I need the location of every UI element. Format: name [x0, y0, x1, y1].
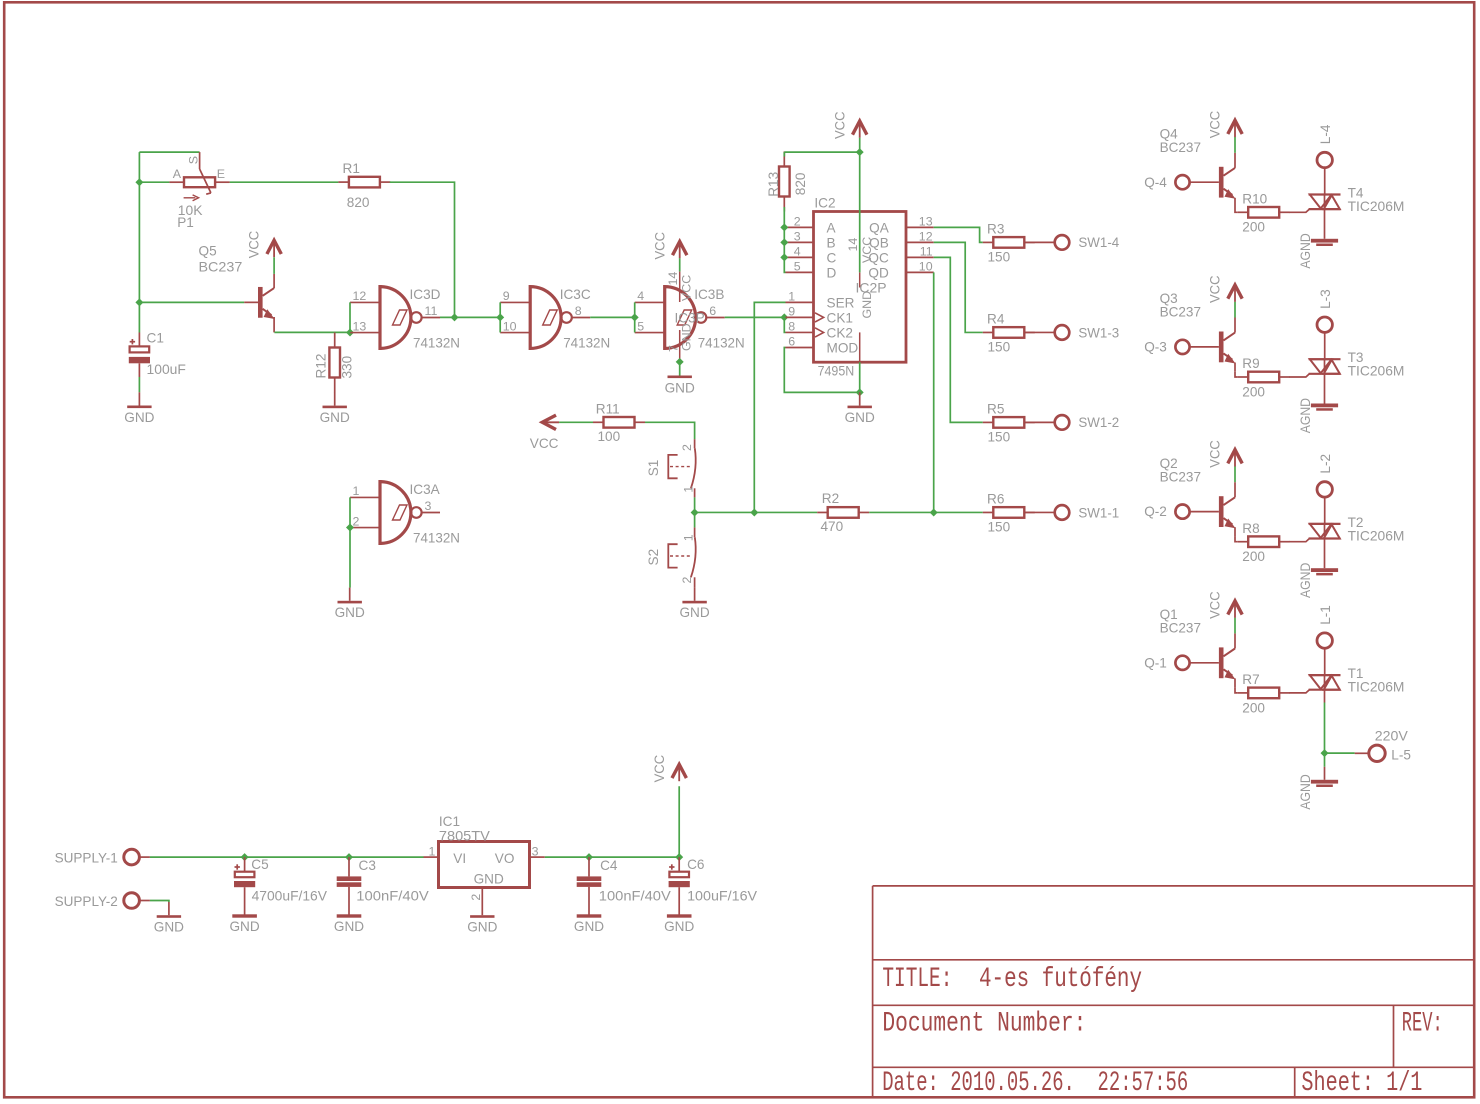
svg-text:IC3D: IC3D	[410, 287, 441, 302]
svg-text:150: 150	[988, 340, 1011, 355]
pad SW1-1	[1025, 505, 1120, 520]
svg-text:BC237: BC237	[1160, 305, 1201, 320]
junction IC3C input tie	[496, 313, 504, 321]
pad Q-2	[1144, 504, 1189, 519]
transistor Q5 BC237	[199, 244, 275, 333]
svg-text:IC2: IC2	[814, 196, 835, 211]
resistor R8 200	[1238, 521, 1290, 564]
wire L-1 to T1 MT2	[1324, 648, 1326, 675]
wire T1 MT1 to 220V node	[1324, 690, 1326, 703]
power VCC (Q5 collector)	[247, 231, 282, 259]
svg-text:BC237: BC237	[1160, 140, 1201, 155]
junction emitter/IC3D pin13	[346, 328, 354, 336]
power VCC (left arrow at R11)	[530, 415, 559, 451]
svg-text:SUPPLY-2: SUPPLY-2	[55, 894, 118, 909]
svg-text:GND: GND	[574, 919, 604, 934]
svg-text:5: 5	[637, 319, 644, 333]
svg-text:P1: P1	[177, 215, 194, 230]
svg-text:11: 11	[920, 245, 933, 259]
junction IC3B gnd	[676, 358, 684, 366]
wire R13 top to VCC node	[784, 151, 859, 153]
svg-text:3: 3	[532, 845, 539, 859]
wire Q5 collector to VCC	[273, 257, 275, 274]
switch S2	[646, 527, 696, 587]
svg-text:R3: R3	[987, 222, 1004, 237]
triac T1 TIC206M	[1309, 666, 1405, 695]
svg-text:TITLE:: TITLE:	[882, 964, 952, 995]
capacitor C1 100uF	[129, 331, 186, 378]
wire Q3 emitter to R9	[1235, 372, 1238, 377]
pad L-3	[1317, 289, 1333, 332]
resistor R3 150	[983, 222, 1035, 265]
wire IC3C out to IC3B inputs	[590, 316, 635, 318]
NAND gate IC3C (74132N)	[500, 287, 610, 351]
svg-text:R6: R6	[987, 492, 1004, 507]
svg-text:100uF/16V: 100uF/16V	[687, 888, 757, 903]
svg-text:Document Number:: Document Number:	[882, 1009, 1086, 1040]
junction C4	[585, 853, 593, 861]
wire rail to pot A	[139, 181, 169, 183]
resistor R2 470	[817, 491, 869, 534]
svg-text:2: 2	[680, 444, 694, 451]
svg-text:TIC206M: TIC206M	[1348, 364, 1405, 379]
ground GND (IC2)	[845, 392, 875, 425]
wire Q-2 to Q2 base	[1190, 511, 1219, 513]
wire IC3D out to IC3C inputs	[440, 316, 500, 318]
power VCC (Q2)	[1208, 440, 1243, 468]
svg-text:VCC: VCC	[652, 232, 667, 260]
wire R8 to T2 gate	[1289, 539, 1309, 542]
wire Q-1 to Q1 base	[1190, 662, 1219, 664]
svg-text:8: 8	[788, 320, 795, 334]
svg-text:74132N: 74132N	[563, 336, 610, 351]
junction pin A	[780, 223, 788, 231]
power VCC (IC3B pin 14) with pin lines	[652, 232, 693, 302]
resistor R7 200	[1238, 672, 1290, 715]
transistor Q2 BC237	[1160, 456, 1236, 537]
wire Q1 emitter to R7	[1235, 688, 1238, 693]
pad Q-1	[1144, 655, 1189, 670]
switch S1	[646, 439, 696, 497]
wire SER to switch node	[754, 302, 785, 512]
svg-text:GND: GND	[320, 410, 350, 425]
wire Q-3 to Q3 base	[1190, 346, 1219, 348]
svg-text:GND: GND	[124, 410, 154, 425]
svg-text:AGND: AGND	[1298, 774, 1313, 809]
ground GND (IC3B)	[665, 376, 695, 396]
junction QD/R2/R6	[930, 508, 938, 516]
svg-text:VCC: VCC	[1208, 111, 1223, 139]
svg-text:C1: C1	[147, 331, 164, 346]
ground GND (IC3A)	[335, 588, 365, 621]
wire QD to SW1-1 node	[933, 272, 935, 512]
wire R7 to T1 gate	[1289, 690, 1309, 693]
svg-text:IC3C: IC3C	[560, 287, 591, 302]
svg-text:SW1-4: SW1-4	[1078, 235, 1119, 250]
triac T3 TIC206M	[1309, 350, 1405, 379]
svg-text:GND: GND	[664, 919, 694, 934]
svg-text:R5: R5	[987, 402, 1004, 417]
junction rail/pot-A	[135, 178, 143, 186]
resistor R13 820	[766, 152, 808, 212]
svg-text:7495N: 7495N	[818, 364, 855, 379]
wire R9 to T3 gate	[1289, 374, 1309, 377]
wire L-3 to T3 MT2	[1324, 332, 1326, 359]
svg-text:GND: GND	[845, 410, 875, 425]
pad SW1-2	[1025, 415, 1120, 430]
wire IC3B inputs tie	[634, 302, 636, 332]
pad L-5 220V	[1369, 729, 1411, 763]
wire IC3B out to IC2 CK1/CK2	[725, 316, 786, 318]
svg-text:A: A	[827, 220, 837, 235]
svg-text:VCC: VCC	[832, 111, 847, 139]
svg-text:13: 13	[919, 215, 933, 229]
wire R11 to S1	[645, 422, 695, 439]
svg-text:220V: 220V	[1375, 729, 1408, 744]
triac T2 TIC206M	[1309, 515, 1405, 544]
svg-text:TIC206M: TIC206M	[1348, 680, 1405, 695]
ground GND (S2)	[679, 588, 709, 621]
pad L-1	[1317, 605, 1333, 648]
svg-text:L-4: L-4	[1318, 124, 1333, 144]
svg-text:Q-1: Q-1	[1144, 655, 1167, 670]
wire Q4 collector to VCC	[1234, 137, 1236, 153]
svg-text:TIC206M: TIC206M	[1348, 199, 1405, 214]
capacitor C3 100nF/40V	[334, 857, 429, 934]
svg-text:200: 200	[1242, 384, 1265, 399]
svg-text:GND: GND	[665, 381, 695, 396]
svg-text:R4: R4	[987, 312, 1005, 327]
wire L-4 to T4 MT2	[1324, 168, 1326, 195]
power VCC (Q3)	[1208, 275, 1243, 303]
wire VCC to IC2 pin14	[859, 138, 861, 273]
svg-text:R8: R8	[1242, 521, 1259, 536]
pad L-2	[1317, 454, 1333, 497]
svg-text:74132N: 74132N	[413, 336, 460, 351]
junction C6	[675, 853, 683, 861]
ground GND (R12)	[320, 392, 350, 425]
wire node to AGND	[1324, 753, 1326, 767]
svg-text:C4: C4	[600, 858, 618, 873]
svg-text:R1: R1	[343, 161, 360, 176]
resistor R10 200	[1238, 192, 1290, 235]
junction CK1 node	[780, 313, 788, 321]
wire L-2 to T2 MT2	[1324, 497, 1326, 524]
svg-text:AGND: AGND	[1298, 563, 1313, 598]
svg-text:9: 9	[788, 305, 795, 319]
svg-text:GND: GND	[860, 291, 874, 319]
svg-text:Q-3: Q-3	[1144, 340, 1167, 355]
svg-text:820: 820	[793, 172, 808, 195]
svg-text:9: 9	[503, 289, 510, 303]
svg-text:L-5: L-5	[1391, 748, 1411, 763]
svg-text:IC3B: IC3B	[694, 287, 724, 302]
svg-text:10: 10	[919, 260, 933, 274]
svg-text:A: A	[173, 167, 182, 181]
transistor Q3 BC237	[1160, 291, 1236, 372]
svg-text:2: 2	[469, 894, 483, 901]
svg-text:74132N: 74132N	[698, 336, 745, 351]
svg-text:12: 12	[353, 289, 367, 303]
NAND gate IC3B (74132N)	[635, 287, 745, 351]
wire VCC riser	[678, 786, 680, 857]
svg-text:GND: GND	[154, 920, 184, 935]
wire S1 to node	[694, 497, 696, 512]
wire R13 bottom to IC2 ABCD pins	[784, 207, 785, 272]
svg-text:L-3: L-3	[1318, 289, 1333, 309]
svg-text:CK1: CK1	[827, 311, 853, 326]
svg-text:IC3P: IC3P	[675, 311, 705, 326]
resistor R6 150	[983, 492, 1035, 535]
svg-text:Q-2: Q-2	[1144, 504, 1167, 519]
svg-text:REV:: REV:	[1402, 1009, 1443, 1040]
svg-text:6: 6	[709, 304, 716, 318]
wire T3 MT1 to AGND	[1324, 374, 1326, 404]
svg-text:C3: C3	[359, 858, 376, 873]
svg-text:SW1-2: SW1-2	[1078, 415, 1119, 430]
capacitor C5 4700uF/16V	[229, 857, 327, 934]
junction IC3A pin2	[346, 523, 354, 531]
potentiometer P1 10K	[169, 152, 229, 230]
svg-text:L-2: L-2	[1318, 454, 1333, 474]
NAND gate IC3D (74132N)	[350, 287, 460, 351]
svg-text:S: S	[186, 156, 200, 164]
wire node to S2	[694, 512, 696, 527]
svg-text:R7: R7	[1242, 672, 1259, 687]
wire rail to Q5 base	[139, 301, 244, 303]
ground AGND (T1)	[1298, 774, 1338, 809]
pad SW1-3	[1025, 325, 1120, 340]
resistor R9 200	[1238, 356, 1290, 399]
svg-text:13: 13	[353, 319, 367, 333]
svg-text:R2: R2	[822, 491, 839, 506]
wire QA to R3	[934, 227, 983, 242]
svg-text:3: 3	[425, 499, 432, 513]
svg-text:4: 4	[637, 289, 644, 303]
wire R2 to QD node	[869, 511, 934, 513]
svg-text:VI: VI	[453, 851, 466, 866]
ground AGND (T2)	[1298, 563, 1338, 598]
svg-text:1: 1	[353, 484, 360, 498]
svg-text:MOD: MOD	[827, 341, 859, 356]
svg-text:VO: VO	[495, 851, 515, 866]
svg-text:200: 200	[1242, 700, 1265, 715]
svg-text:1: 1	[682, 534, 696, 541]
svg-text:C6: C6	[687, 857, 704, 872]
svg-text:VCC: VCC	[1208, 275, 1223, 303]
wire Q2 emitter to R8	[1235, 536, 1238, 541]
ground AGND (T3)	[1298, 398, 1338, 433]
svg-text:SW1-1: SW1-1	[1078, 505, 1119, 520]
triac T4 TIC206M	[1309, 185, 1405, 214]
svg-text:4-es futófény: 4-es futófény	[979, 964, 1142, 995]
pad SUPPLY-2	[55, 893, 140, 909]
svg-text:VCC: VCC	[652, 755, 667, 783]
voltage regulator IC1 7805TV	[424, 814, 545, 902]
junction feedback/IC3D-out	[451, 313, 459, 321]
junction pin B	[780, 238, 788, 246]
wire Q-4 to Q4 base	[1190, 181, 1219, 183]
svg-text:1: 1	[682, 486, 696, 493]
capacitor C4 100nF/40V	[574, 857, 671, 934]
wire T2 MT1 to AGND	[1324, 539, 1326, 569]
wire Q5 emitter to R12/IC3D	[274, 331, 350, 333]
junction SER riser	[750, 508, 758, 516]
wire IC3A inputs tie to GND	[349, 497, 351, 587]
svg-text:150: 150	[988, 430, 1011, 445]
pad Q-4	[1144, 175, 1189, 190]
power VCC (supply output)	[652, 755, 687, 783]
wire supply rail	[139, 856, 150, 858]
svg-text:GND: GND	[467, 920, 497, 935]
svg-text:B: B	[827, 235, 836, 250]
svg-text:6: 6	[788, 335, 795, 349]
junction IC2 gnd	[856, 388, 864, 396]
pad L-4	[1317, 124, 1333, 168]
ground AGND (T4)	[1298, 233, 1338, 268]
title block frame	[873, 886, 1474, 1097]
wire IC3C inputs tie	[499, 302, 501, 332]
svg-text:S1: S1	[646, 460, 661, 477]
ground GND (IC1)	[481, 902, 483, 915]
svg-text:IC3A: IC3A	[410, 482, 441, 497]
transistor Q1 BC237	[1160, 607, 1236, 688]
svg-text:SER: SER	[827, 295, 855, 310]
svg-text:Sheet: 1/1: Sheet: 1/1	[1301, 1068, 1422, 1099]
wire Q3 collector to VCC	[1234, 302, 1236, 318]
wire node to R2	[695, 511, 818, 513]
junction pin C	[780, 253, 788, 261]
svg-text:11: 11	[425, 304, 438, 318]
svg-text:820: 820	[347, 195, 370, 210]
svg-text:2: 2	[794, 215, 801, 229]
resistor R12 330	[313, 333, 354, 393]
resistor R4 150	[983, 312, 1035, 355]
ground GND (SUPPLY-2)	[168, 902, 170, 915]
svg-text:10: 10	[503, 319, 517, 333]
svg-text:200: 200	[1242, 549, 1265, 564]
svg-text:GND: GND	[679, 605, 709, 620]
wire pot E to R1	[230, 181, 339, 183]
svg-text:1: 1	[788, 290, 795, 304]
wire R1 to IC3D output feedback	[390, 182, 455, 317]
wire VCC to R11	[559, 421, 593, 423]
svg-text:VCC: VCC	[860, 237, 874, 263]
svg-text:C5: C5	[251, 857, 268, 872]
svg-text:150: 150	[988, 520, 1011, 535]
svg-text:AGND: AGND	[1298, 233, 1313, 268]
svg-text:2: 2	[680, 577, 694, 584]
junction rail/Q5-base	[135, 298, 143, 306]
wire IC3D inputs tie	[349, 302, 351, 332]
svg-text:100uF: 100uF	[147, 362, 186, 377]
svg-text:5: 5	[794, 260, 801, 274]
svg-text:7805TV: 7805TV	[439, 828, 490, 843]
svg-text:VCC: VCC	[1208, 440, 1223, 468]
svg-text:BC237: BC237	[1160, 621, 1201, 636]
svg-text:SW1-3: SW1-3	[1078, 325, 1119, 340]
wire Q2 collector to VCC	[1234, 466, 1236, 482]
svg-text:GND: GND	[334, 919, 364, 934]
svg-text:GND: GND	[335, 605, 365, 620]
svg-text:8: 8	[575, 304, 582, 318]
svg-text:4: 4	[794, 245, 801, 259]
svg-text:R11: R11	[596, 402, 620, 417]
wire SUPPLY-2 to GND	[139, 900, 150, 902]
svg-text:7: 7	[667, 345, 681, 352]
svg-text:3: 3	[794, 230, 801, 244]
wire QC to R5	[934, 257, 983, 422]
svg-text:14: 14	[846, 238, 860, 252]
svg-text:150: 150	[988, 250, 1011, 265]
power VCC (Q1)	[1208, 591, 1243, 619]
svg-text:330: 330	[340, 355, 355, 378]
transistor Q4 BC237	[1160, 127, 1236, 208]
IC3B GND pin line	[667, 323, 694, 375]
svg-text:GND: GND	[474, 871, 504, 886]
svg-text:C: C	[827, 250, 837, 265]
power VCC (IC2 pin 14)	[832, 111, 867, 139]
junction 220V node	[1321, 749, 1329, 757]
pad SW1-4	[1025, 235, 1120, 250]
svg-text:R9: R9	[1242, 356, 1259, 371]
wire QB to R4	[934, 242, 983, 332]
svg-text:TIC206M: TIC206M	[1348, 528, 1405, 543]
svg-text:470: 470	[821, 519, 844, 534]
svg-text:R13: R13	[766, 172, 781, 197]
svg-text:R10: R10	[1242, 192, 1267, 207]
wire R10 to T4 gate	[1289, 209, 1309, 212]
wire Q1 collector to VCC	[1234, 618, 1236, 634]
svg-text:14: 14	[666, 272, 680, 286]
resistor R1 820	[338, 161, 390, 210]
svg-text:Q5: Q5	[199, 244, 217, 259]
svg-text:QD: QD	[868, 265, 889, 280]
wire node to L-5	[1325, 752, 1355, 754]
wire top (rail to pot wiper S)	[139, 151, 199, 153]
svg-text:100nF/40V: 100nF/40V	[599, 888, 671, 903]
svg-text:BC237: BC237	[199, 260, 243, 275]
wire T4 MT1 to AGND	[1324, 209, 1326, 239]
svg-text:GND: GND	[229, 919, 259, 934]
svg-text:VCC: VCC	[530, 436, 559, 451]
svg-text:200: 200	[1242, 220, 1265, 235]
junction C5	[241, 853, 249, 861]
pad SUPPLY-1	[55, 849, 140, 865]
svg-text:CK2: CK2	[827, 326, 853, 341]
svg-text:AGND: AGND	[1298, 398, 1313, 433]
wire net N$2 left rail (pot A / Q5 base / C1)	[138, 152, 140, 332]
svg-text:100nF/40V: 100nF/40V	[356, 888, 429, 903]
svg-text:BC237: BC237	[1160, 469, 1201, 484]
svg-text:VCC: VCC	[1208, 591, 1223, 619]
svg-text:QA: QA	[869, 220, 890, 235]
svg-text:VCC: VCC	[680, 275, 694, 301]
wire Q4 emitter to R10	[1235, 207, 1238, 212]
svg-text:IC1: IC1	[439, 814, 460, 829]
svg-text:Date: 2010.05.26. 22:57:56: Date: 2010.05.26. 22:57:56	[882, 1068, 1188, 1099]
svg-text:1: 1	[428, 845, 435, 859]
resistor R5 150	[983, 402, 1035, 445]
junction VCC node	[856, 148, 864, 156]
svg-text:SUPPLY-1: SUPPLY-1	[55, 850, 118, 865]
svg-text:D: D	[827, 265, 837, 280]
svg-text:74132N: 74132N	[413, 531, 460, 546]
svg-text:Q-4: Q-4	[1144, 175, 1167, 190]
svg-text:2: 2	[353, 514, 360, 528]
wire MOD to GND	[784, 348, 859, 393]
capacitor C6 100uF/16V	[664, 857, 757, 934]
